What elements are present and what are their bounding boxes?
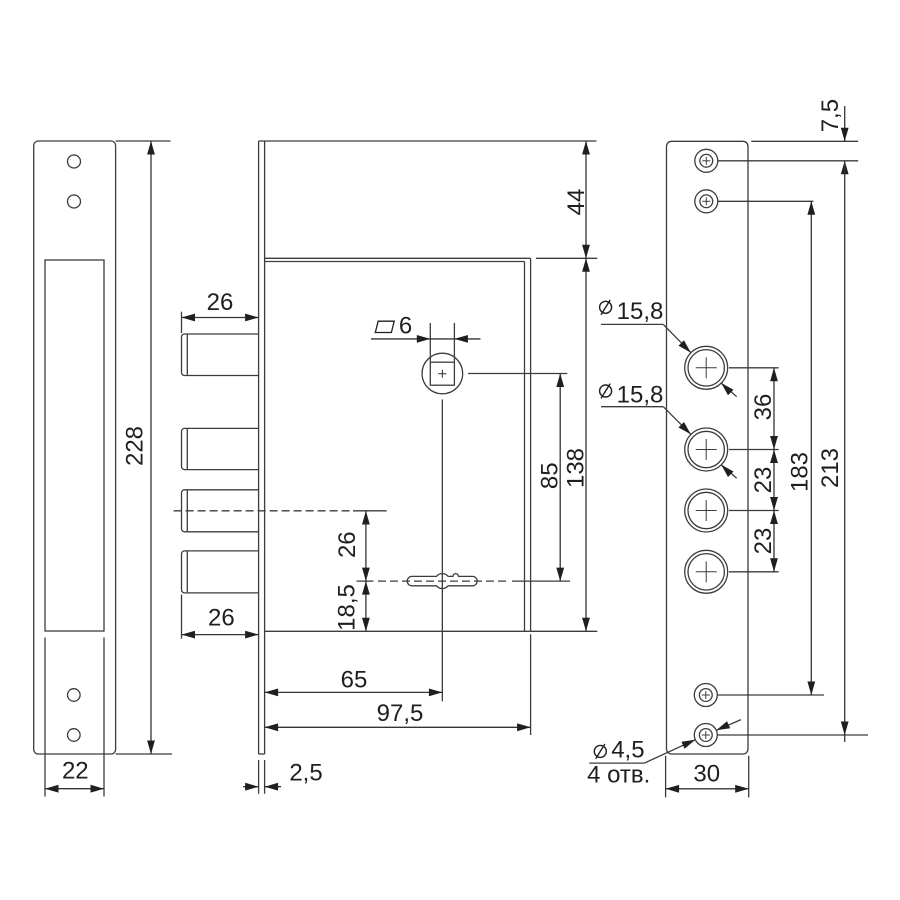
dimension 30 (666, 756, 749, 798)
vertical centerline through spindle and keyhole (441, 400, 443, 702)
dimension 23 upper (750, 450, 778, 511)
deadbolt 2 (182, 428, 259, 469)
screw hole left bottom 1 (68, 689, 81, 702)
dimension 26 bottom (182, 595, 259, 639)
center extension line hole top2 (718, 200, 813, 202)
dimension 213 (817, 161, 848, 742)
screw hole right bottom 2 (694, 724, 717, 747)
cylinder hole 2 (Ø15,8) (685, 428, 728, 471)
dimension 26 top (182, 289, 259, 333)
svg-text:36: 36 (750, 394, 777, 421)
faceplate top edge + 44 extension line (259, 140, 597, 142)
svg-text:183: 183 (786, 452, 813, 492)
svg-text:65: 65 (341, 666, 368, 693)
spindle boss circle (422, 353, 463, 394)
dimension 23 lower (750, 511, 778, 572)
svg-text:4 отв.: 4 отв. (587, 762, 650, 789)
svg-text:26: 26 (208, 604, 235, 631)
lock body bottom extension line (531, 630, 598, 632)
svg-text:85: 85 (537, 462, 564, 489)
center extension line cyl3 (729, 510, 779, 512)
spindle center extension line right (468, 373, 567, 375)
svg-text:4,5: 4,5 (611, 737, 644, 764)
screw hole right bottom 1 (694, 684, 717, 707)
dimension 26 vertical (334, 511, 370, 631)
dimension 7,5 (817, 99, 849, 174)
lock body outline (265, 258, 531, 631)
svg-text:6: 6 (399, 312, 412, 339)
svg-text:26: 26 (334, 531, 361, 558)
dimension 65 (265, 666, 443, 696)
deadbolt 1 (182, 334, 259, 376)
svg-text:18,5: 18,5 (334, 584, 361, 631)
cylinder hole 4 (685, 550, 728, 593)
center extension line bottom2 (717, 734, 868, 736)
svg-text:22: 22 (62, 758, 89, 785)
screw hole left top 1 (68, 155, 81, 168)
dimension 183 (786, 201, 815, 695)
faceplate front view outer outline (34, 141, 116, 754)
svg-text:44: 44 (563, 189, 590, 216)
center extension line bottom1 (717, 694, 824, 696)
svg-text:15,8: 15,8 (617, 298, 664, 325)
dimension 36 (750, 368, 778, 450)
svg-text:138: 138 (563, 448, 590, 488)
lock body top extension line (536, 257, 597, 259)
label Ø4,5 4 holes with leader (587, 720, 741, 789)
deadbolt 3 (182, 490, 259, 532)
label Ø15,8 lower with leader (600, 382, 737, 479)
deadbolt 3 dashed centerline (174, 510, 387, 512)
svg-text:213: 213 (817, 448, 844, 488)
svg-text:228: 228 (122, 426, 149, 466)
dimension 85 (537, 374, 565, 582)
svg-text:7,5: 7,5 (817, 99, 844, 132)
lock faceplate edge view 2.5mm strip (259, 141, 265, 754)
dimension 6 square-symbol (371, 312, 481, 361)
svg-text:2,5: 2,5 (289, 760, 322, 787)
svg-text:26: 26 (207, 289, 234, 316)
faceplate cutout inner rectangle (45, 260, 104, 631)
svg-text:97,5: 97,5 (377, 700, 424, 727)
svg-text:23: 23 (750, 528, 777, 555)
cylinder hole 3 (685, 489, 728, 532)
keyhole (407, 574, 477, 589)
back plate top extension line (751, 140, 858, 142)
center extension line cyl1 (729, 367, 779, 369)
svg-text:15,8: 15,8 (617, 382, 664, 409)
dimension 2,5 (243, 760, 323, 794)
center extension line cyl4 (729, 571, 779, 573)
screw hole right top 1 (695, 149, 718, 172)
keyhole dashed centerline (357, 580, 571, 582)
dimension 97,5 (265, 634, 531, 735)
dimension 18,5 (334, 581, 370, 631)
dimension 22 (45, 758, 104, 793)
spindle square hole 6mm (430, 362, 454, 385)
svg-text:23: 23 (750, 467, 777, 494)
label Ø15,8 upper with leader (600, 298, 737, 397)
dimension 44 (563, 141, 590, 258)
back plate outline (667, 141, 749, 754)
faceplate inner edge lines (22 extension lines) (45, 638, 104, 797)
svg-text:30: 30 (693, 761, 720, 788)
center extension line hole top1 (718, 160, 858, 162)
center extension line cyl2 (729, 449, 779, 451)
dimension 138 (563, 258, 590, 631)
screw hole left top 2 (68, 195, 81, 208)
screw hole right top 2 (695, 190, 718, 213)
cylinder hole 1 (Ø15,8) (685, 346, 728, 389)
dimension 228 (116, 141, 172, 754)
screw hole left bottom 2 (68, 729, 81, 742)
deadbolt 4 (182, 551, 259, 593)
